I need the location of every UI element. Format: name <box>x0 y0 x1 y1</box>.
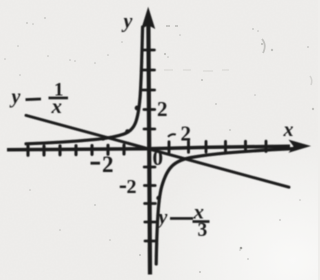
tilde mark left of x-label 2 <box>168 134 176 137</box>
svg-text:y: y <box>157 207 168 229</box>
svg-text:2: 2 <box>127 176 137 198</box>
y-axis arrowhead <box>141 7 155 29</box>
x-axis ticks positive <box>169 141 266 152</box>
svg-text:x: x <box>51 94 63 118</box>
svg-text:x: x <box>283 119 294 141</box>
ink blob on curve IV <box>156 196 160 200</box>
y-axis ticks positive <box>142 50 155 129</box>
ink blobs on curve II <box>125 129 130 134</box>
svg-text:2: 2 <box>157 97 168 121</box>
label -2 (y axis) <box>120 186 126 188</box>
svg-text:y: y <box>10 86 21 108</box>
x-axis ticks negative <box>28 145 124 155</box>
faint streaks <box>164 26 312 85</box>
y-axis <box>148 24 150 275</box>
curve y=-1/x branch quadrant II <box>26 27 143 144</box>
straight line y=-x/3 <box>26 115 289 187</box>
x-axis <box>7 146 290 150</box>
svg-text:2: 2 <box>102 152 114 177</box>
label -2 (x axis) <box>91 162 101 165</box>
svg-text:3: 3 <box>198 220 208 241</box>
svg-text:0: 0 <box>153 146 164 170</box>
y-axis ticks negative <box>144 167 156 241</box>
curve y=-1/x branch quadrant IV <box>156 149 293 264</box>
svg-text:2: 2 <box>181 122 192 146</box>
x-axis arrowhead <box>289 140 312 153</box>
svg-text:y: y <box>122 11 133 33</box>
